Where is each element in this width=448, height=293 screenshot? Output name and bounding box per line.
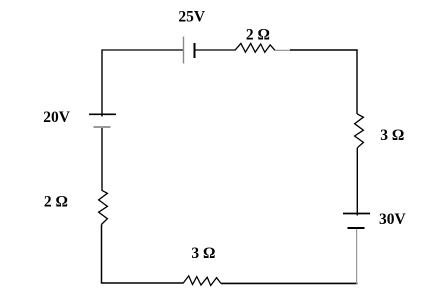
- svg-text:2 Ω: 2 Ω: [44, 194, 68, 211]
- svg-text:30V: 30V: [379, 211, 407, 228]
- svg-text:2 Ω: 2 Ω: [246, 26, 270, 43]
- svg-text:20V: 20V: [43, 109, 71, 126]
- svg-text:3 Ω: 3 Ω: [380, 127, 404, 144]
- svg-text:25V: 25V: [178, 9, 206, 26]
- svg-text:3 Ω: 3 Ω: [191, 245, 215, 262]
